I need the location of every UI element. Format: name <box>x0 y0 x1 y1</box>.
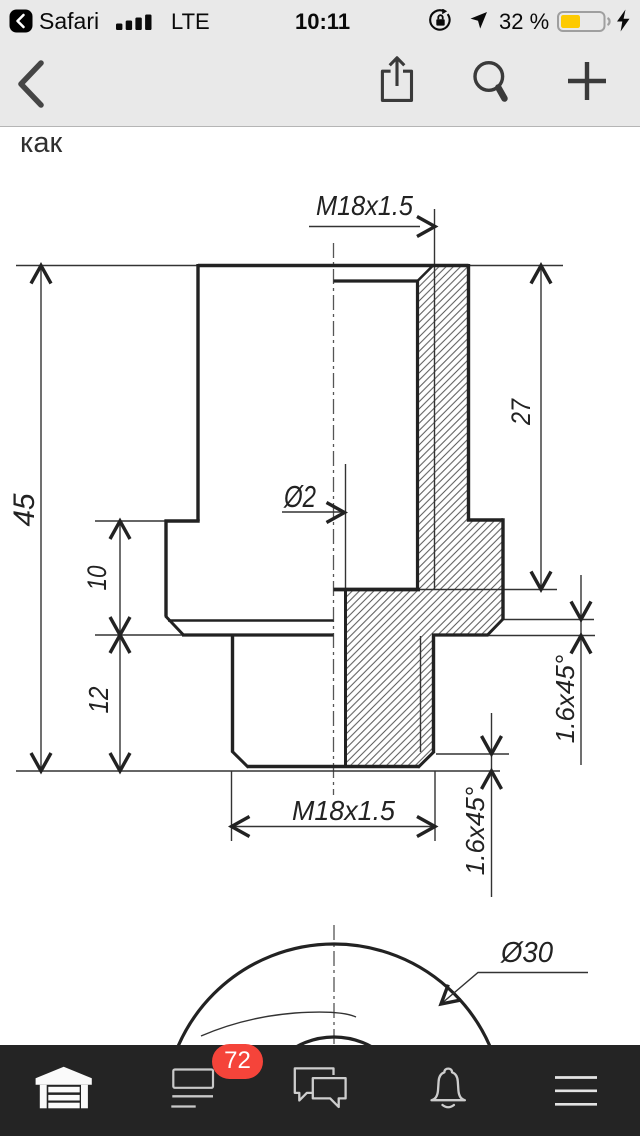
flange chamfer circle line A <box>168 619 334 622</box>
flange step top right <box>467 518 503 521</box>
"как" page text <box>20 127 62 160</box>
flange right edge <box>501 518 504 619</box>
extension line: flange chamfer top right <box>503 619 594 621</box>
svg-text:27: 27 <box>506 398 536 426</box>
step flange top left <box>165 519 200 522</box>
bottom tab bar <box>0 1045 640 1136</box>
bottom M18x1.5 dim line <box>233 826 433 828</box>
extension line: flange bottom right <box>488 635 596 637</box>
O2 hole wall <box>344 590 347 767</box>
back chevron <box>14 60 46 108</box>
svg-text:Ø30: Ø30 <box>500 937 553 969</box>
charging bolt <box>616 9 631 32</box>
spigot chamfer right <box>418 752 434 768</box>
thread minor thin line (bottom spigot) <box>420 636 422 752</box>
plus icon <box>566 60 608 102</box>
svg-text:45: 45 <box>8 493 41 526</box>
bottom view spigot end circle <box>257 1037 411 1136</box>
bottom face <box>248 765 419 769</box>
bore bottom <box>334 588 421 592</box>
badge 72 <box>212 1044 263 1079</box>
outer edge right (section) <box>467 264 470 520</box>
back-to-safari square <box>9 9 33 33</box>
bottom view centerline <box>333 925 335 1045</box>
inner bore top line <box>334 279 419 282</box>
part outline: top face <box>198 264 469 267</box>
svg-text:M18x1.5: M18x1.5 <box>316 190 413 221</box>
upper chamfer dim line <box>580 575 582 765</box>
status bar <box>0 0 640 40</box>
extension line: O2 hole edge <box>345 464 347 589</box>
O30 leader <box>441 973 588 1005</box>
menu icon <box>553 1075 599 1109</box>
spigot right edge <box>432 635 435 753</box>
spigot left edge <box>231 635 234 752</box>
extension line: bore bottom (27 dim) <box>420 589 557 591</box>
O2 leader <box>282 511 342 513</box>
chat icon <box>293 1066 349 1114</box>
share icon <box>377 54 417 106</box>
dim 10 line <box>119 522 121 634</box>
thin extension line: top face level (45/27 dims) <box>16 265 563 267</box>
flange bottom right <box>432 633 489 636</box>
svg-text:1.6x45°: 1.6x45° <box>460 787 490 875</box>
thin extension line: bottom level <box>16 770 500 772</box>
flange chamfer left <box>166 616 184 635</box>
bottom view big circle O30 <box>164 944 504 1136</box>
extension line: flange top left (10 dim) <box>95 520 198 522</box>
location arrow <box>470 11 488 30</box>
dim 27 line <box>540 267 542 588</box>
extension line: flange bottom left (10/12 dims) <box>95 634 183 636</box>
bore mouth chamfer <box>418 266 434 282</box>
extension lines: bottom M18 dim <box>231 771 233 841</box>
dim 12 line <box>119 636 121 770</box>
svg-text:Ø2: Ø2 <box>283 479 316 514</box>
orientation lock icon <box>429 9 452 32</box>
garage icon (selected) <box>34 1066 94 1109</box>
flange chamfer right <box>487 619 504 636</box>
thread major thin line (top bore) <box>434 209 436 589</box>
search icon <box>472 60 510 106</box>
news icon <box>169 1067 217 1111</box>
svg-text:M18x1.5: M18x1.5 <box>292 795 395 826</box>
hatched section region <box>346 266 504 767</box>
svg-text:1.6x45°: 1.6x45° <box>550 655 580 743</box>
signal bars <box>116 13 156 31</box>
main centerline <box>333 243 335 795</box>
lower chamfer dim line <box>491 713 493 897</box>
dim 45 line <box>40 267 42 770</box>
bottom view thread arc (freehand) <box>201 1012 356 1036</box>
flange left edge <box>164 520 167 617</box>
top M18x1.5 leader <box>309 226 420 228</box>
svg-text:10: 10 <box>82 566 112 591</box>
bell icon <box>428 1065 470 1110</box>
svg-text:12: 12 <box>83 686 114 713</box>
spigot chamfer left <box>232 751 249 768</box>
left edge top section <box>196 264 199 521</box>
flange bottom line B left <box>182 633 334 636</box>
bore wall <box>416 280 419 590</box>
extension line: lower chamfer top <box>436 753 509 755</box>
nav bar <box>0 40 640 127</box>
battery <box>557 11 613 32</box>
